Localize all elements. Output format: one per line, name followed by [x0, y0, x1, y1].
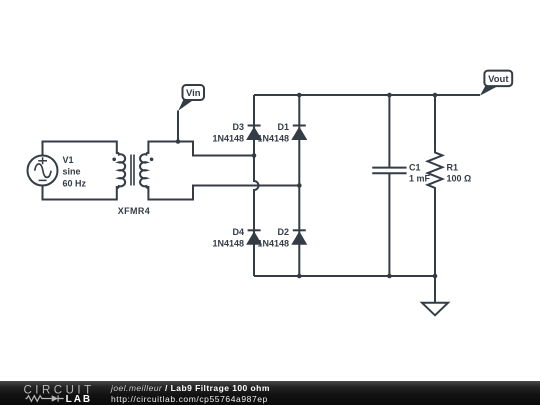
footer bar — [0, 381, 540, 405]
svg-text:D3: D3 — [232, 122, 244, 132]
svg-text:1N4148: 1N4148 — [257, 134, 289, 144]
diode D4 — [246, 230, 262, 244]
svg-text:D1: D1 — [277, 122, 289, 132]
svg-text:1N4148: 1N4148 — [212, 134, 244, 144]
svg-text:XFMR4: XFMR4 — [118, 206, 150, 216]
wire Vout stem — [435, 94, 480, 96]
capacitor C1 plates — [372, 168, 406, 174]
transformer XFMR4 primary winding — [117, 153, 125, 189]
transformer secondary phase dot — [150, 158, 154, 162]
svg-text:D2: D2 — [277, 227, 289, 237]
wire V1 top to primary — [43, 142, 117, 156]
svg-text:1N4148: 1N4148 — [257, 239, 289, 249]
top output rail — [254, 94, 480, 96]
svg-text:sine: sine — [63, 167, 81, 177]
junction node on Vin wire — [176, 139, 181, 144]
junction node bottom rail ground — [433, 274, 438, 279]
junction node secondary top at left rail — [252, 153, 257, 158]
Vout flag — [484, 71, 512, 87]
junction node top rail right bridge — [297, 93, 302, 98]
svg-text:Vin: Vin — [186, 88, 201, 99]
diode D3 — [246, 126, 262, 141]
bridge left rail with hop — [254, 95, 259, 276]
resistor R1 — [428, 95, 443, 276]
junction node bottom rail C1 — [387, 274, 392, 279]
junction node secondary bottom at right rail — [297, 183, 302, 188]
junction node top rail R1 — [433, 93, 438, 98]
svg-text:100 Ω: 100 Ω — [447, 173, 472, 183]
svg-text:D4: D4 — [232, 227, 244, 237]
svg-text:V1: V1 — [63, 155, 74, 165]
Vin flag — [183, 85, 205, 100]
svg-text:1N4148: 1N4148 — [212, 239, 244, 249]
svg-text:1 mF: 1 mF — [409, 173, 431, 183]
svg-text:C1: C1 — [409, 163, 421, 173]
voltage source V1 — [28, 156, 58, 186]
svg-text:R1: R1 — [447, 163, 459, 173]
wire secondary bottom to bridge right rail — [148, 186, 299, 200]
svg-text:60 Hz: 60 Hz — [63, 178, 87, 188]
bottom return rail — [254, 275, 435, 277]
capacitor C1 leads — [388, 95, 390, 276]
ground wire — [434, 276, 436, 303]
svg-text:LAB: LAB — [66, 394, 93, 404]
transformer primary phase dot — [112, 158, 116, 162]
svg-text:Vout: Vout — [488, 74, 509, 85]
bridge right rail — [298, 95, 300, 276]
diode D2 — [291, 230, 307, 244]
wire V1 bottom from primary — [43, 186, 117, 200]
transformer XFMR4 secondary winding — [140, 153, 148, 189]
transformer core — [131, 155, 134, 186]
diode D1 — [291, 126, 307, 141]
CircuitLab logo — [22, 383, 97, 404]
junction node top rail C1 — [387, 93, 392, 98]
Vout flag tail — [480, 86, 499, 96]
footer text — [111, 383, 270, 404]
ground symbol — [422, 303, 448, 316]
junction node bottom rail right bridge — [297, 274, 302, 279]
Vin flag tail — [178, 100, 194, 111]
wire Vin stem — [177, 111, 179, 142]
wire secondary top to bridge left rail — [148, 142, 254, 156]
